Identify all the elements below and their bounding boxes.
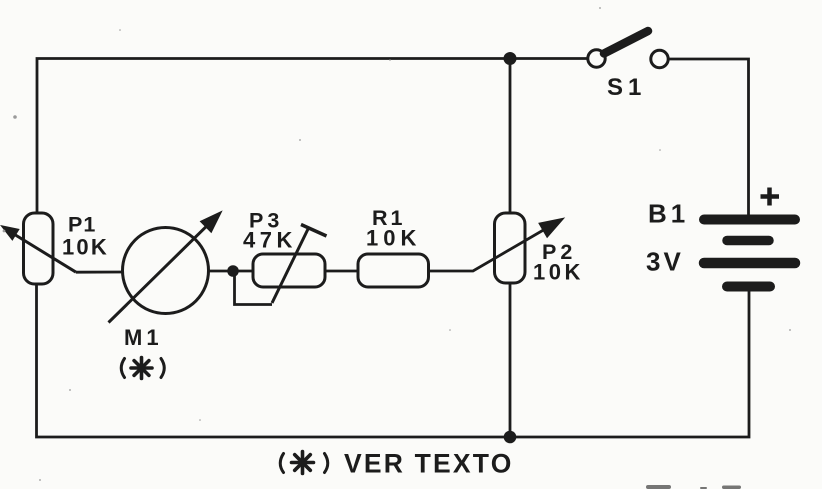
svg-text:S1: S1 <box>607 74 646 101</box>
node A (top junction dot) <box>504 52 517 65</box>
wire: M1 to node C <box>209 270 234 273</box>
potentiometer P1 <box>3 213 77 284</box>
resistor R1 <box>358 254 429 287</box>
wire: node C to P3 <box>233 270 253 273</box>
wire: P2 bottom to node B <box>509 282 512 437</box>
wire: P3 to R1 <box>325 270 358 273</box>
svg-text:10K: 10K <box>366 226 421 251</box>
wire: P1 top to top-left corner to node A <box>37 59 510 215</box>
wire: node B to bottom-left corner to P1 bottom <box>37 284 511 437</box>
switch S1 <box>588 31 668 68</box>
label (*) see text marker under M1 <box>121 358 164 379</box>
svg-text:M1: M1 <box>124 325 163 350</box>
wire: node A to P2 top <box>509 59 512 215</box>
wire: R1 to P2 wiper <box>429 228 547 271</box>
battery B1 <box>704 220 795 287</box>
wire: battery negative to bottom-right corner to node B <box>510 291 749 437</box>
svg-text:10K: 10K <box>533 260 584 285</box>
trimpot P3 <box>253 225 327 304</box>
label (*) VER TEXTO note <box>280 449 513 479</box>
svg-text:47K: 47K <box>243 228 297 253</box>
svg-text:B1: B1 <box>648 199 689 229</box>
wire: node A to S1 left contact <box>510 57 588 60</box>
node C (wiper junction dot) <box>227 265 239 277</box>
svg-text:10K: 10K <box>62 235 109 260</box>
caption fragment (cut-off text at bottom right) <box>646 485 741 489</box>
svg-text:3V: 3V <box>646 247 684 277</box>
potentiometer P2 <box>495 213 563 283</box>
wire: P3 wiper loop to node C <box>235 276 273 305</box>
wire: P1 wiper to M1 <box>76 271 123 274</box>
label + (battery positive) <box>761 188 780 206</box>
svg-text:P1: P1 <box>68 213 96 237</box>
svg-text:VER TEXTO: VER TEXTO <box>344 449 514 479</box>
meter M1 <box>109 213 221 323</box>
wire: S1 right contact to top-right corner to battery positive <box>669 59 749 216</box>
node B (bottom junction dot) <box>504 431 517 444</box>
